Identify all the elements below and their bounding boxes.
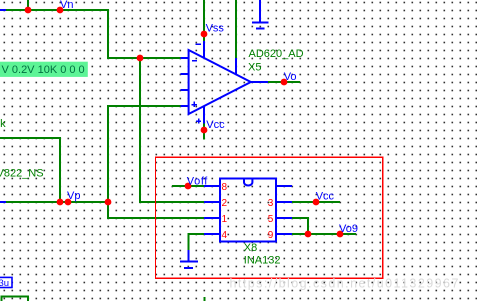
svg-text:Vcc: Vcc <box>206 119 225 131</box>
wire REF pin net from top edge <box>235 0 237 58</box>
op-amp Vss pin <box>203 41 205 59</box>
svg-text:V 0.2V 10K 0 0 0: V 0.2V 10K 0 0 0 <box>2 64 85 76</box>
node Vp label attach <box>65 199 72 206</box>
svg-text:3: 3 <box>268 198 274 209</box>
svg-text:AD620_AD: AD620_AD <box>249 48 304 60</box>
svg-text:Vn: Vn <box>60 0 73 11</box>
wire from Vp junction up to plus input and down to INA132 pin 1 <box>108 106 204 218</box>
node junction on Vn wire <box>25 7 32 14</box>
svg-text:Vo9: Vo9 <box>339 223 358 235</box>
wire output Vo net <box>268 81 300 83</box>
svg-text:Vcc: Vcc <box>316 190 335 202</box>
svg-text:3u: 3u <box>0 278 9 289</box>
label highlighted parameters V 0.2V 10K 0 0 0 <box>0 62 88 77</box>
svg-text:Vo: Vo <box>284 71 297 83</box>
IC left pin stubs <box>204 186 220 234</box>
wire pin5 jog down to pin9 net <box>292 218 308 234</box>
svg-text:0k: 0k <box>0 118 6 130</box>
svg-text:Vp: Vp <box>67 190 80 202</box>
label box 3u (clipped, bottom left) <box>0 277 12 288</box>
IC right pin stubs <box>276 186 292 234</box>
wire Vcc net at INA pin 3 <box>292 201 340 203</box>
op-amp REF pin <box>235 58 237 75</box>
svg-text:Voff: Voff <box>187 175 209 187</box>
wire Vn net: horizontal then down to op-amp minus input <box>6 10 181 58</box>
node Voff <box>185 183 192 190</box>
wire Vcc stub below node <box>203 124 205 140</box>
node Vn label attach <box>57 7 64 14</box>
op-amp minus input mark <box>192 60 197 62</box>
wire component box top edge at bottom edge of screen <box>2 297 29 301</box>
wire pin4 to ground <box>189 234 204 250</box>
wire stub up from Vn wire to top edge <box>27 0 29 10</box>
svg-text:X5: X5 <box>248 61 261 73</box>
svg-text:5: 5 <box>268 214 274 225</box>
svg-text:1: 1 <box>222 214 228 225</box>
svg-text:4: 4 <box>222 230 228 241</box>
ground bottom symbol <box>180 250 198 268</box>
node junction Vp at x60 <box>57 199 64 206</box>
wire Vp net horizontal <box>6 201 108 203</box>
IC notch <box>244 178 252 185</box>
op-amp output pin stub <box>251 81 269 83</box>
node Vss <box>201 31 208 38</box>
op-amp supply plus mark <box>196 119 201 124</box>
svg-text:8: 8 <box>222 182 228 193</box>
svg-text:INA132: INA132 <box>244 255 281 267</box>
op-amp input pin stubs <box>181 58 189 106</box>
node Vo9 <box>337 231 344 238</box>
node Vcc right <box>313 199 320 206</box>
node junction pin5/pin9 <box>305 231 312 238</box>
wire from off-screen part down to Vp net <box>0 138 60 202</box>
svg-text:2: 2 <box>222 198 228 209</box>
op-amp supply minus mark <box>196 43 201 45</box>
node Vcc op-amp <box>201 127 208 134</box>
node junction Vp to x108 <box>105 199 112 206</box>
svg-text:https://blog.csdn.net/u0113299: https://blog.csdn.net/u011329967 <box>230 277 460 291</box>
red selection box around INA132 <box>156 157 383 278</box>
op-amp plus input mark <box>192 102 197 108</box>
IC U X8 INA132 body <box>220 178 276 241</box>
wire Vss supply from top edge <box>203 0 205 41</box>
wire Vo9 net at INA pin 9 <box>292 233 356 235</box>
node Vo <box>281 79 288 86</box>
op-amp Vcc pin <box>203 106 205 124</box>
wire Vn net: left pin stub (blue) <box>0 9 6 11</box>
wire Vp net: left pin stub (blue) <box>0 201 6 203</box>
svg-text:X8: X8 <box>244 242 257 254</box>
svg-text:9: 9 <box>268 230 274 241</box>
svg-text:Vss: Vss <box>206 23 225 35</box>
node junction minus input wire <box>137 55 144 62</box>
svg-text:V822_NS: V822_NS <box>0 168 44 180</box>
wire stub at bottom edge <box>203 297 205 301</box>
ground top symbol <box>252 0 269 29</box>
wire from minus-input wire down to INA132 pin 2 <box>140 58 204 202</box>
op-amp U X5 AD620_AD triangle <box>189 50 251 114</box>
wire Voff net <box>172 185 204 187</box>
